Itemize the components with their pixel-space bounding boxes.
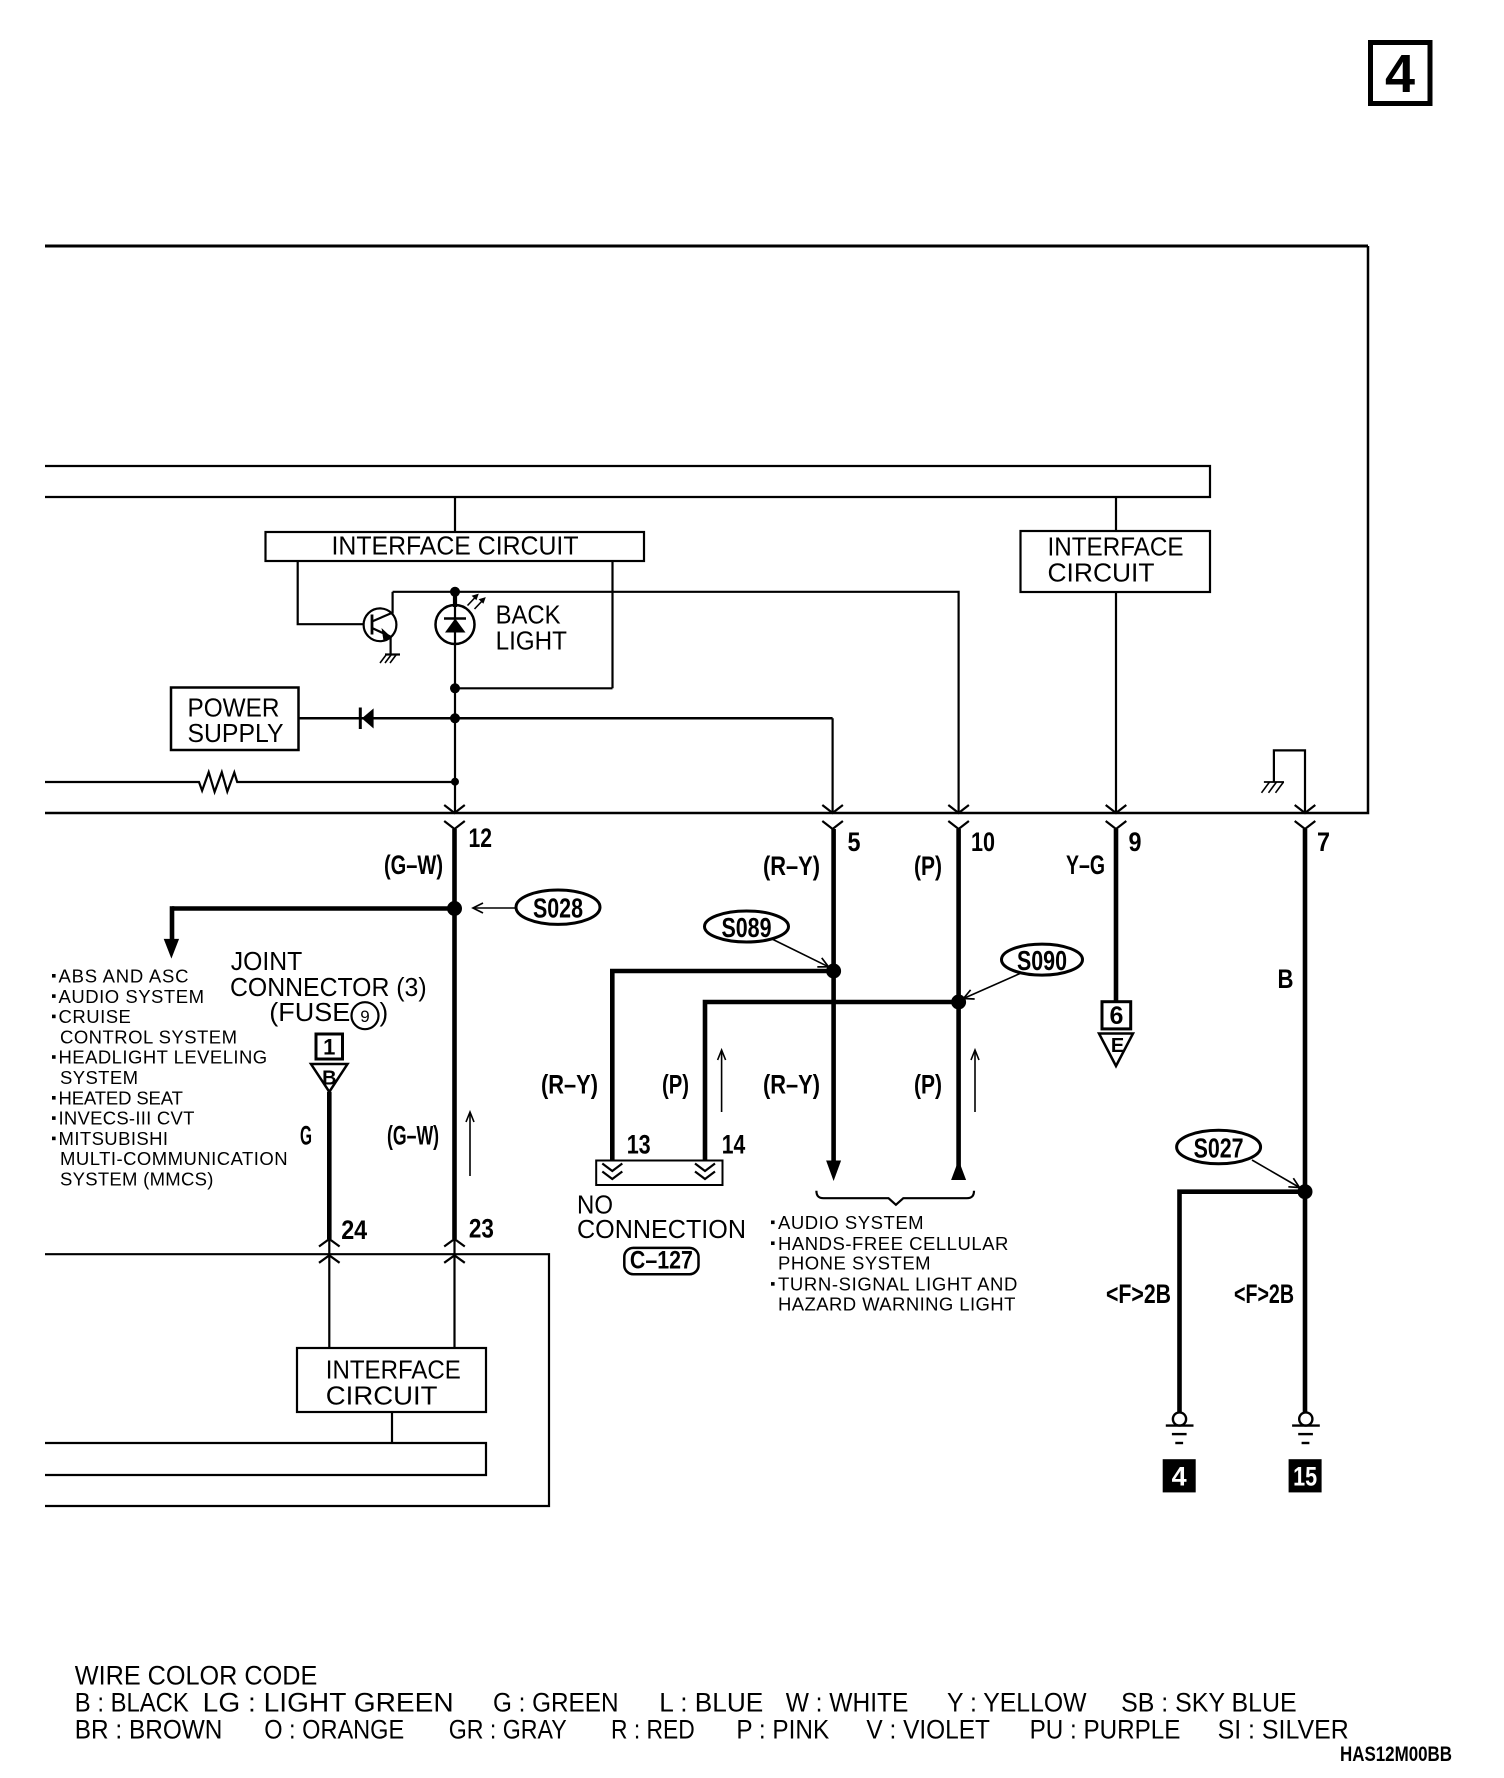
svg-text:AUDIO SYSTEM: AUDIO SYSTEM — [59, 986, 205, 1007]
internal bus bar — [45, 466, 1210, 497]
interface circuit U2 box — [1021, 531, 1211, 592]
connector box 6 — [1102, 1002, 1131, 1030]
svg-text:(R–Y): (R–Y) — [763, 1070, 820, 1100]
ground tag 4 — [1163, 1459, 1196, 1492]
S028 splice oval — [516, 890, 600, 924]
svg-text:(P): (P) — [662, 1070, 689, 1100]
svg-text:PU : PURPLE: PU : PURPLE — [1030, 1715, 1181, 1745]
svg-text:CIRCUIT: CIRCUIT — [1048, 558, 1155, 588]
wire power supply to pin 5 corner — [299, 717, 833, 720]
svg-text:(R–Y): (R–Y) — [763, 851, 820, 881]
svg-text:GR : GRAY: GR : GRAY — [449, 1715, 567, 1745]
svg-text:15: 15 — [1293, 1462, 1317, 1492]
wire branch S089 to pin 13 — [612, 971, 833, 1161]
svg-text:HANDS-FREE CELLULAR: HANDS-FREE CELLULAR — [778, 1233, 1008, 1254]
svg-text:SYSTEM (MMCS): SYSTEM (MMCS) — [60, 1169, 213, 1190]
wire S028 branch to systems — [172, 906, 455, 911]
wire U1 right leg — [611, 561, 613, 688]
ground triangle E — [1099, 1034, 1133, 1067]
svg-text:R : RED: R : RED — [611, 1715, 695, 1745]
svg-text:B : BLACK: B : BLACK — [75, 1688, 189, 1718]
wire G from triangle B to pin 24 — [327, 1092, 332, 1239]
wire junction to U1 right leg — [455, 687, 613, 689]
wire branch S027 to ground — [1180, 1192, 1306, 1413]
svg-text:9: 9 — [1129, 827, 1142, 857]
svg-text:PHONE SYSTEM: PHONE SYSTEM — [778, 1253, 931, 1274]
svg-text:CIRCUIT: CIRCUIT — [326, 1381, 438, 1411]
svg-text:(G–W): (G–W) — [387, 1121, 439, 1151]
svg-text:(P): (P) — [914, 1070, 942, 1100]
back light LED D1 — [436, 592, 486, 644]
svg-text:MITSUBISHI: MITSUBISHI — [59, 1128, 169, 1149]
node resistor/LED wire junction — [451, 778, 459, 786]
S089 leader arrow — [772, 939, 829, 967]
transistor Q1 — [364, 608, 397, 641]
svg-text:(G–W): (G–W) — [384, 850, 443, 880]
svg-text:7: 7 — [1317, 827, 1330, 857]
S027 splice oval — [1177, 1130, 1261, 1164]
diode D2 — [360, 708, 373, 730]
svg-text:S027: S027 — [1194, 1132, 1244, 1163]
svg-text:TURN-SIGNAL LIGHT AND: TURN-SIGNAL LIGHT AND — [778, 1274, 1017, 1295]
ground bolt right — [1292, 1412, 1320, 1443]
node S089 junction — [826, 964, 841, 979]
svg-text:SI : SILVER: SI : SILVER — [1218, 1715, 1349, 1745]
wire (P) pin 10 down — [956, 829, 961, 1180]
svg-text:Y–G: Y–G — [1066, 850, 1105, 880]
node rail/LED junction — [450, 587, 460, 597]
legend: wire color code — [75, 1661, 1349, 1745]
svg-text:AUDIO SYSTEM: AUDIO SYSTEM — [778, 1212, 924, 1233]
pin 9 connector chevrons — [1106, 805, 1127, 829]
joint connector terminal box 1 — [316, 1034, 343, 1060]
connector triangle B — [311, 1064, 348, 1092]
flow arrow up beside wire 23 — [466, 1112, 474, 1176]
svg-text:4: 4 — [1172, 1462, 1187, 1492]
pin 5 connector chevrons — [822, 805, 843, 829]
svg-text:<F>2B: <F>2B — [1234, 1279, 1294, 1309]
svg-text:ABS AND ASC: ABS AND ASC — [59, 966, 189, 987]
svg-text:SUPPLY: SUPPLY — [188, 718, 284, 748]
wire internal ground to pin 7 — [1274, 750, 1305, 813]
svg-text:): ) — [380, 997, 389, 1027]
svg-text:6: 6 — [1109, 1002, 1123, 1030]
wire pin 23 into U3 — [453, 1239, 455, 1348]
wire Q1 emitter to ground — [390, 637, 392, 655]
svg-text:G: G — [300, 1121, 312, 1151]
lower bus bar — [45, 1443, 486, 1475]
svg-text:(P): (P) — [914, 851, 942, 881]
joint connector label — [230, 946, 427, 1029]
svg-text:BR : BROWN: BR : BROWN — [75, 1715, 223, 1745]
wire branch S090 to pin 14 — [705, 1002, 959, 1161]
svg-text:12: 12 — [469, 823, 493, 853]
ground bolt left — [1166, 1412, 1194, 1443]
svg-text:INTERFACE CIRCUIT: INTERFACE CIRCUIT — [332, 531, 579, 561]
wire U1 left leg to transistor base — [298, 561, 364, 624]
svg-text:HAZARD WARNING LIGHT: HAZARD WARNING LIGHT — [778, 1293, 1015, 1314]
svg-text:WIRE COLOR CODE: WIRE COLOR CODE — [75, 1661, 317, 1691]
svg-text:(R–Y): (R–Y) — [541, 1070, 598, 1100]
wire (R-Y) pin 5 down — [831, 829, 836, 1162]
wire Y-G pin 9 down — [1114, 829, 1119, 1002]
S089 splice oval — [705, 911, 789, 943]
S090 splice oval — [1002, 944, 1083, 976]
combination meter outline box (lower) — [45, 1254, 549, 1506]
pin 7 connector chevrons — [1295, 805, 1316, 829]
flow arrow up beside wire 14 — [718, 1050, 726, 1112]
node LED/U1 feedback junction — [450, 683, 460, 693]
svg-text:Y : YELLOW: Y : YELLOW — [947, 1688, 1087, 1718]
svg-text:9: 9 — [360, 1007, 369, 1026]
S027 leader arrow — [1252, 1160, 1300, 1188]
brace under pins 5/10 — [816, 1191, 974, 1205]
wire Q1 collector to rail — [392, 592, 394, 614]
meter/ECU outline box (upper) — [45, 245, 1368, 248]
svg-text:10: 10 — [971, 827, 995, 857]
systems list (left) — [52, 966, 288, 1190]
svg-text:W : WHITE: W : WHITE — [786, 1688, 909, 1718]
svg-text:HEATED SEAT: HEATED SEAT — [59, 1087, 183, 1108]
wire bus bar to interface circuit U1 — [454, 497, 456, 532]
node S027 junction — [1298, 1184, 1313, 1199]
svg-text:O : ORANGE: O : ORANGE — [264, 1715, 404, 1745]
wire LED cathode down to pin 12 — [454, 606, 456, 813]
svg-text:E: E — [1111, 1035, 1124, 1057]
S090 leader arrow — [964, 974, 1021, 999]
svg-text:B: B — [1278, 964, 1294, 994]
resistor R1 rail — [45, 772, 453, 792]
svg-text:P : PINK: P : PINK — [736, 1715, 829, 1745]
svg-text:23: 23 — [469, 1214, 494, 1244]
svg-text:INVECS-III CVT: INVECS-III CVT — [59, 1108, 195, 1129]
interface circuit U3 box — [297, 1348, 486, 1412]
ground (internal, pin 7) — [1262, 782, 1285, 793]
collector rail wire — [393, 592, 959, 813]
svg-text:(FUSE: (FUSE — [269, 997, 350, 1027]
page tag box 4 — [1371, 43, 1431, 105]
no-connection box C-127 — [596, 1161, 722, 1186]
interface circuit U1 box — [266, 532, 645, 561]
C-127 connector tag — [624, 1247, 698, 1275]
pin 23 connector chevrons — [444, 1239, 465, 1263]
node power-supply/LED wire junction — [450, 713, 460, 723]
svg-text:13: 13 — [627, 1130, 651, 1160]
wire pin 24 into U3 — [328, 1239, 330, 1348]
svg-text:B: B — [322, 1068, 336, 1090]
svg-text:LG : LIGHT GREEN: LG : LIGHT GREEN — [203, 1688, 454, 1718]
flow arrow up beside pin 10 wire — [971, 1050, 979, 1112]
svg-text:CONTROL SYSTEM: CONTROL SYSTEM — [60, 1026, 237, 1047]
wire bus bar to U2 — [1115, 497, 1117, 531]
svg-text:L : BLUE: L : BLUE — [659, 1688, 763, 1718]
svg-text:C–127: C–127 — [630, 1247, 693, 1275]
svg-text:LIGHT: LIGHT — [496, 625, 567, 655]
power supply box — [171, 688, 299, 751]
pin 12 connector chevrons — [444, 805, 465, 829]
wire (G-W) pin 12 down — [452, 829, 457, 1239]
svg-text:4: 4 — [1385, 44, 1415, 104]
pin 24 connector chevrons — [319, 1239, 340, 1263]
svg-text:1: 1 — [323, 1035, 335, 1060]
svg-text:CRUISE: CRUISE — [59, 1006, 131, 1027]
svg-text:MULTI-COMMUNICATION: MULTI-COMMUNICATION — [60, 1148, 288, 1169]
ground tag 15 — [1289, 1459, 1322, 1492]
svg-text:CONNECTION: CONNECTION — [577, 1214, 746, 1244]
svg-text:<F>2B: <F>2B — [1106, 1279, 1171, 1309]
ground (transistor emitter) — [380, 655, 400, 664]
S028 leader arrow — [473, 907, 516, 909]
svg-text:5: 5 — [848, 827, 861, 857]
svg-text:V : VIOLET: V : VIOLET — [866, 1715, 990, 1745]
svg-text:S089: S089 — [722, 912, 772, 943]
svg-text:24: 24 — [341, 1215, 367, 1245]
svg-text:S090: S090 — [1017, 945, 1067, 976]
pin 10 connector chevrons — [948, 805, 969, 829]
svg-text:G : GREEN: G : GREEN — [493, 1688, 619, 1718]
svg-text:S028: S028 — [533, 893, 583, 924]
svg-text:SYSTEM: SYSTEM — [60, 1067, 138, 1088]
wire U3 to lower bus bar — [391, 1412, 393, 1443]
wire U2 to pin 9 — [1115, 592, 1117, 813]
node S090 junction — [951, 995, 966, 1010]
svg-text:14: 14 — [722, 1130, 746, 1160]
node S028 junction — [447, 901, 462, 916]
wire B pin 7 down — [1303, 829, 1308, 1412]
audio systems list — [771, 1212, 1017, 1314]
svg-text:HAS12M00BB: HAS12M00BB — [1340, 1743, 1452, 1766]
svg-text:SB : SKY BLUE: SB : SKY BLUE — [1121, 1688, 1297, 1718]
svg-text:HEADLIGHT LEVELING: HEADLIGHT LEVELING — [59, 1047, 268, 1068]
